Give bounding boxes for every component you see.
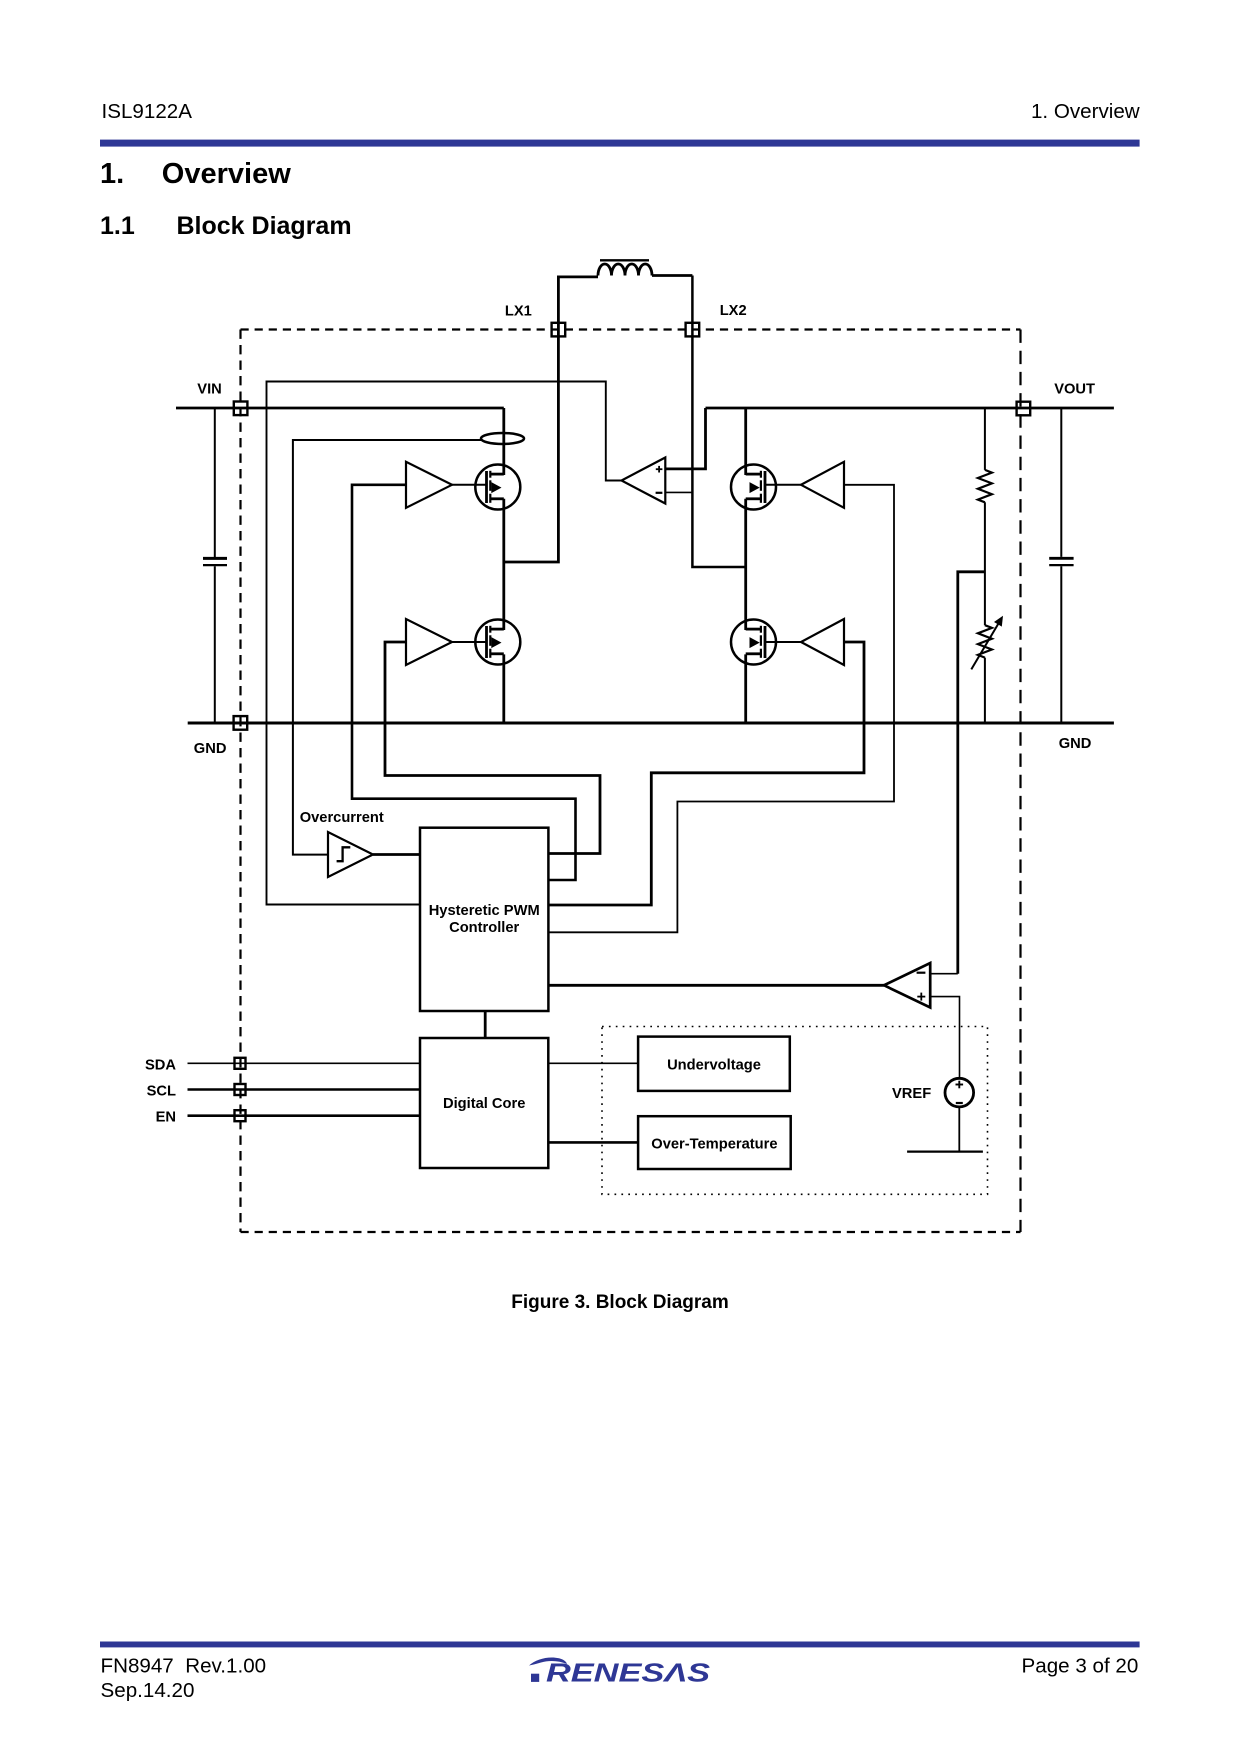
ground (VREF return) bbox=[907, 1150, 983, 1152]
wire Q4 source to GND bbox=[744, 654, 747, 723]
svg-text:LX1: LX1 bbox=[505, 304, 532, 320]
wire VIN to input cap bbox=[214, 408, 216, 557]
wire R2 to GND bbox=[984, 658, 986, 723]
svg-text:RENESΛS: RENESΛS bbox=[546, 1660, 710, 1688]
wire Q3 source to Q4 drain (LX2 node) bbox=[744, 499, 747, 630]
buffer Q1 gate driver bbox=[406, 462, 452, 508]
wire Q3 driver to gate bbox=[765, 484, 801, 486]
wire U1 output to Hysteretic PWM Controller bbox=[267, 382, 622, 905]
resistor R1 bbox=[978, 470, 992, 502]
buffer Q2 gate driver bbox=[406, 619, 452, 665]
wire current sense to overcurrent comparator bbox=[293, 440, 481, 855]
svg-text:Block Diagram: Block Diagram bbox=[177, 212, 352, 240]
voltage source VREF bbox=[945, 1078, 974, 1107]
svg-text:Undervoltage: Undervoltage bbox=[667, 1057, 761, 1073]
svg-text:GND: GND bbox=[1059, 736, 1092, 752]
wire EN bbox=[188, 1114, 421, 1117]
pin pad LX1 bbox=[552, 323, 566, 337]
wire node LX2 vertical bbox=[692, 276, 745, 568]
wire U3 - input bbox=[930, 973, 958, 975]
svg-text:1. Overview: 1. Overview bbox=[1031, 100, 1140, 123]
pin pad GND bbox=[234, 716, 248, 730]
wire SCL bbox=[188, 1088, 421, 1091]
footer rule bbox=[100, 1642, 1140, 1648]
block Over-Temperature bbox=[638, 1116, 791, 1169]
wire SDA bbox=[188, 1062, 421, 1064]
svg-text:VOUT: VOUT bbox=[1054, 382, 1095, 398]
pin pad VIN bbox=[234, 402, 248, 416]
block Digital Core bbox=[420, 1038, 548, 1168]
transistor Q3 high-side right bbox=[731, 465, 776, 510]
wire controller to Q2 driver bbox=[385, 642, 600, 854]
capacitor CIN bbox=[203, 558, 227, 565]
op-amp U3 bbox=[884, 963, 930, 1008]
wire digital core to Undervoltage bbox=[548, 1062, 638, 1064]
wire VOUT to Q3 drain bbox=[744, 408, 747, 475]
wire U3 output to controller bbox=[548, 984, 884, 987]
wire VIN to Q1 drain bbox=[502, 408, 505, 475]
wire LX2 to U1 - input bbox=[665, 491, 692, 493]
transistor Q2 low-side left bbox=[475, 620, 520, 665]
svg-text:SCL: SCL bbox=[147, 1084, 176, 1100]
wire inductor left lead bbox=[558, 275, 598, 278]
svg-text:1.: 1. bbox=[100, 158, 124, 190]
svg-text:Overview: Overview bbox=[162, 158, 291, 190]
block Hysteretic PWM Controller bbox=[420, 828, 548, 1011]
resistor R2 (variable) bbox=[971, 616, 1003, 670]
buffer Q3 gate driver bbox=[801, 462, 844, 508]
svg-text:Digital Core: Digital Core bbox=[443, 1096, 525, 1112]
svg-text:Controller: Controller bbox=[449, 920, 519, 936]
heading 1. Overview bbox=[100, 158, 291, 190]
svg-text:FN8947 Rev.1.00: FN8947 Rev.1.00 bbox=[101, 1655, 267, 1678]
pin pad SDA bbox=[235, 1058, 246, 1069]
wire controller to Q1 driver bbox=[352, 485, 576, 880]
svg-text:Hysteretic PWM: Hysteretic PWM bbox=[429, 903, 540, 919]
wire VOUT to U1 + input bbox=[665, 408, 705, 469]
wire VOUT rail bbox=[706, 407, 1114, 410]
svg-text:Overcurrent: Overcurrent bbox=[300, 810, 384, 826]
wire output cap to GND bbox=[1060, 566, 1062, 723]
svg-text:Over-Temperature: Over-Temperature bbox=[651, 1137, 777, 1153]
svg-text:SDA: SDA bbox=[145, 1057, 176, 1073]
wire Q1 source to Q2 drain (LX1 node) bbox=[502, 499, 505, 630]
transistor Q1 high-side left bbox=[475, 465, 520, 510]
wire Q2 driver to gate bbox=[452, 641, 487, 643]
wire Q2 source to GND bbox=[502, 654, 505, 723]
wire VIN rail bbox=[176, 407, 504, 410]
monitor functions boundary (dotted) bbox=[602, 1027, 988, 1195]
pin pad LX2 bbox=[686, 323, 700, 337]
buffer Q4 gate driver bbox=[801, 619, 844, 665]
capacitor COUT bbox=[1049, 558, 1073, 565]
wire Q4 driver to gate bbox=[765, 641, 801, 643]
wire VOUT to output cap bbox=[1060, 408, 1062, 557]
svg-text:VREF: VREF bbox=[892, 1086, 931, 1102]
wire controller to digital core bbox=[484, 1011, 487, 1038]
wire controller to Q4 driver bbox=[548, 642, 864, 905]
svg-text:ISL9122A: ISL9122A bbox=[102, 100, 193, 123]
IC boundary (dashed) bbox=[241, 330, 1021, 1233]
wire digital core to Over-Temperature bbox=[548, 1141, 638, 1144]
svg-text:LX2: LX2 bbox=[720, 303, 747, 319]
wire node LX1 tap bbox=[504, 276, 559, 563]
svg-text:GND: GND bbox=[194, 741, 227, 757]
wire VOUT to R1 bbox=[984, 408, 986, 470]
transistor Q4 low-side right bbox=[731, 620, 776, 665]
block Undervoltage bbox=[638, 1037, 790, 1091]
svg-text:EN: EN bbox=[156, 1110, 176, 1126]
current sense element (ellipse) bbox=[481, 433, 524, 444]
svg-text:Figure 3. Block Diagram: Figure 3. Block Diagram bbox=[511, 1292, 729, 1313]
wire inductor right lead bbox=[652, 274, 692, 277]
header rule bbox=[100, 140, 1140, 147]
wire R1 to R2 bbox=[984, 502, 986, 625]
pin pad VOUT bbox=[1017, 402, 1031, 416]
pin pad EN bbox=[235, 1110, 246, 1121]
wire VREF to ground bbox=[958, 1107, 960, 1152]
svg-text:Sep.14.20: Sep.14.20 bbox=[101, 1679, 195, 1702]
svg-text:VIN: VIN bbox=[197, 382, 221, 398]
op-amp U1 bbox=[622, 458, 666, 504]
wire U3 + input to VREF bbox=[930, 997, 959, 1078]
inductor L1 bbox=[598, 260, 652, 275]
Renesas logo bbox=[529, 1657, 710, 1687]
pin pad SCL bbox=[235, 1084, 246, 1095]
wire feedback tap to U3 - input bbox=[958, 572, 985, 974]
overcurrent comparator U2 bbox=[328, 832, 373, 877]
wire controller to Q3 driver bbox=[548, 485, 894, 933]
wire input cap to GND bbox=[214, 566, 216, 723]
wire GND rail bbox=[188, 722, 1114, 725]
wire U2 output to controller bbox=[373, 853, 420, 856]
svg-text:Page 3 of 20: Page 3 of 20 bbox=[1022, 1654, 1139, 1677]
heading 1.1 Block Diagram bbox=[100, 212, 352, 240]
svg-text:1.1: 1.1 bbox=[100, 212, 135, 240]
wire Q1 driver to gate bbox=[452, 484, 487, 486]
